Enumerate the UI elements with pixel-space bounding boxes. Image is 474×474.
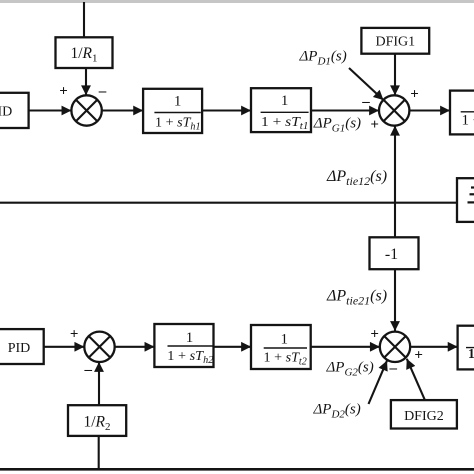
svg-text:+: + [414,347,423,363]
svg-text:ΔPD1(s): ΔPD1(s) [299,49,347,68]
svg-text:PID: PID [8,341,31,356]
svg-text:ΔPG2(s): ΔPG2(s) [326,359,374,378]
svg-text:DFIG1: DFIG1 [375,35,415,50]
svg-text:1: 1 [186,330,194,346]
svg-text:-1: -1 [385,246,398,263]
svg-text:–: – [361,94,370,110]
svg-text:–: – [98,84,107,100]
svg-text:ΔPtie21(s): ΔPtie21(s) [326,287,387,307]
svg-text:+: + [370,117,379,133]
svg-text:+: + [370,326,379,342]
svg-text:–: – [389,360,398,376]
svg-text:–: – [83,362,92,378]
svg-text:ΔPG1(s): ΔPG1(s) [313,115,361,134]
svg-text:1 + sTp1: 1 + sTp1 [462,113,474,131]
svg-text:1: 1 [281,93,289,109]
svg-text:+: + [410,87,419,103]
svg-text:1: 1 [281,332,289,348]
svg-text:ΔPtie12(s): ΔPtie12(s) [326,168,387,188]
svg-text:+: + [70,327,79,343]
svg-text:PID: PID [0,104,12,119]
svg-text:ΔPD2(s): ΔPD2(s) [313,401,361,420]
svg-text:DFIG2: DFIG2 [404,409,444,424]
svg-text:+: + [59,83,68,99]
svg-text:1: 1 [174,94,182,110]
